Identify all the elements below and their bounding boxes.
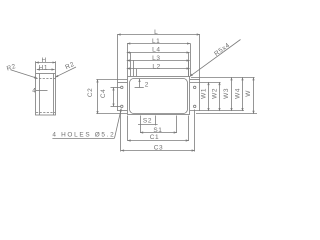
extension C3 right [194,110,196,152]
right flange right edge plus L extension [199,34,201,111]
extension body bottom right [196,113,257,115]
holes callout underline [52,138,114,140]
main view body outer rectangle [128,77,190,115]
left view outer outline [36,74,56,116]
right flange top edge [190,79,200,81]
svg-text:W4: W4 [235,88,242,99]
svg-text:C1: C1 [150,134,160,141]
extension L4 left [130,52,132,76]
extension L1 right [190,43,192,76]
dimension L2 line [127,68,190,70]
left view hidden lip line top [36,78,56,80]
left flange top edge plus C2 extension [96,79,127,81]
svg-text:C3: C3 [154,144,164,151]
left flange bottom edge [118,110,128,112]
svg-text:4 HOLES Ø5.2: 4 HOLES Ø5.2 [52,132,115,139]
thickness 2 dimension arrow line [139,79,141,88]
dimension H line [36,62,56,64]
svg-text:4: 4 [32,87,36,94]
extension C3 left [120,110,122,152]
dimension W2 line [219,82,221,111]
radius leader R5x4 [190,40,241,77]
dimension L line [118,34,200,36]
extension C4 top [111,87,121,89]
hole bottom-right [194,105,196,107]
thickness 4 leader [36,90,48,92]
dimension C2 line [97,79,99,114]
extension C1 left [127,116,129,141]
svg-text:2: 2 [145,81,149,88]
dimension L3 line [127,60,190,62]
svg-text:W1: W1 [201,88,208,99]
extension S1 right [176,116,178,133]
extension S2 left [140,116,142,133]
dimension W line [253,77,255,114]
hole top-right [194,86,196,88]
right flange inner bend line plus W1 W2 extension [190,82,221,84]
dimension W3 line [231,77,233,111]
extension body top right [191,77,255,79]
dimension L1 line [127,43,190,45]
svg-text:C4: C4 [100,89,107,99]
extension C4 bottom [111,106,121,108]
extension C1 right [188,116,190,141]
left flange left edge plus L extension [117,34,119,111]
hole top-left [121,86,123,88]
dimension H1 line [37,69,55,71]
extension L2 left [136,69,138,76]
svg-text:S2: S2 [143,118,152,125]
extension L1 left [127,43,129,76]
main view body inner rounded rectangle R5x4 [130,79,188,114]
svg-text:L1: L1 [152,38,160,45]
svg-text:S1: S1 [153,127,162,134]
extension S2 right [155,116,157,126]
left view inner wall left [39,74,41,116]
dimension C1 line [128,140,189,142]
svg-text:H: H [42,57,47,64]
right flange bottom edge plus W extension [190,110,244,112]
dimension H extension left [35,61,37,73]
left flange inner bend line [118,82,128,84]
radius leader R2 right [55,67,76,77]
left view inner wall right [53,74,55,116]
extension L3 left [133,60,135,76]
svg-text:W2: W2 [211,88,218,99]
hole bottom-left [121,105,123,107]
svg-text:L: L [154,29,158,36]
dimension W4 line [242,77,244,111]
dimension L4 line [127,52,190,54]
dimension S2 line [138,124,158,126]
holes callout leader [115,109,122,139]
extension L3 right [188,60,190,76]
svg-text:L3: L3 [152,55,160,62]
svg-text:W: W [245,90,252,97]
svg-text:W3: W3 [223,88,230,99]
extension C2 bottom [96,113,127,115]
svg-text:L2: L2 [152,64,160,71]
svg-text:R2: R2 [64,61,76,71]
radius leader R2 left [11,70,38,78]
dimension C3 line [121,150,195,152]
svg-text:C2: C2 [87,88,94,98]
dimension H extension right [55,61,57,73]
dimension S1 line [140,132,177,134]
left view hidden line bottom [36,112,55,114]
dimension W1 line [208,82,210,111]
svg-text:R5x4: R5x4 [213,42,231,58]
thickness 2 dimension base tick [135,87,144,89]
dimension C4 line [113,87,115,106]
svg-text:H1: H1 [39,64,49,71]
svg-text:L4: L4 [152,47,160,54]
extension L4 right [188,52,190,76]
